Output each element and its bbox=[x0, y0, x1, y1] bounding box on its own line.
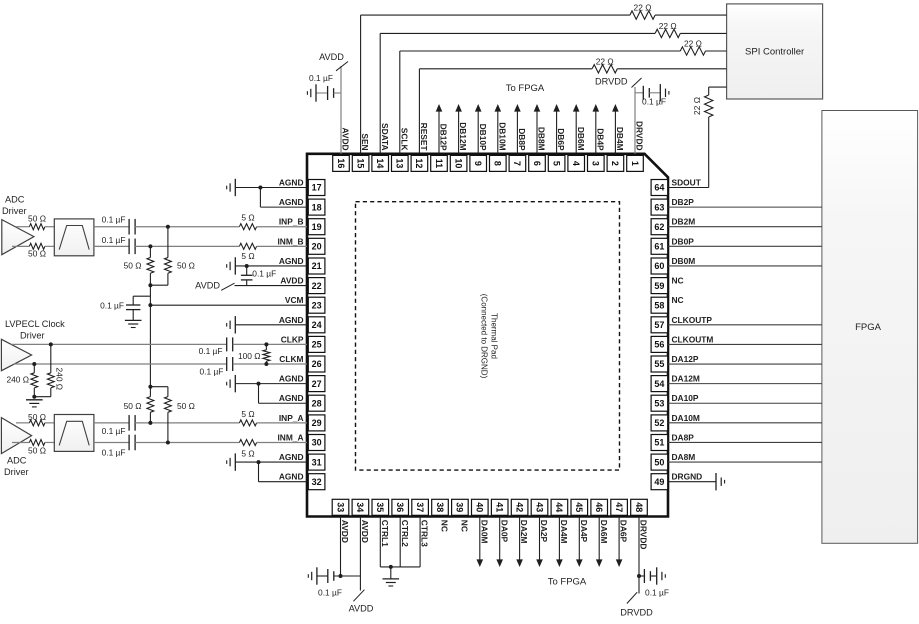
svg-text:AGND: AGND bbox=[279, 393, 304, 403]
pin 44 DA4M (bottom) bbox=[551, 499, 569, 543]
resistor 50 Ohm (INP_B series at driver) bbox=[16, 214, 46, 230]
pin 33 AVDD (bottom) bbox=[332, 499, 350, 543]
svg-text:DA10M: DA10M bbox=[672, 413, 700, 423]
wire net DRVDD pin1 vertical bbox=[634, 87, 636, 154]
wire net AGND pins 27-28 bbox=[235, 384, 307, 404]
svg-text:DA2M: DA2M bbox=[519, 520, 529, 544]
svg-text:23: 23 bbox=[312, 300, 322, 310]
capacitor 0.1uF (AVDD pin16 decoupling) bbox=[309, 73, 341, 100]
wire net DB6M to FPGA (arrow up) bbox=[575, 111, 577, 154]
pin 64 SDOUT (right) bbox=[651, 178, 702, 196]
AVDD net label (top) bbox=[319, 52, 348, 71]
svg-text:Driver: Driver bbox=[4, 467, 29, 477]
svg-text:22 Ω: 22 Ω bbox=[684, 39, 702, 49]
svg-text:22 Ω: 22 Ω bbox=[659, 21, 677, 31]
svg-text:1: 1 bbox=[630, 161, 640, 166]
wire net DA8M (pin 50 to FPGA) bbox=[668, 461, 822, 463]
svg-text:50 Ω: 50 Ω bbox=[177, 260, 195, 270]
svg-text:33: 33 bbox=[335, 502, 345, 512]
pin 37 CTRL3 (bottom) bbox=[412, 499, 430, 547]
wire net DB12M to FPGA (arrow up) bbox=[458, 111, 460, 154]
pin 22 AVDD (left) bbox=[280, 276, 325, 294]
wire net DB0P (pin 61 to FPGA) bbox=[668, 245, 822, 247]
svg-text:DRVDD: DRVDD bbox=[595, 77, 628, 87]
svg-text:DB0P: DB0P bbox=[672, 236, 695, 246]
svg-text:11: 11 bbox=[434, 159, 444, 169]
svg-text:18: 18 bbox=[312, 202, 322, 212]
pin 1 DRVDD (top) bbox=[627, 121, 645, 171]
svg-text:50 Ω: 50 Ω bbox=[28, 214, 46, 224]
pin 48 DRVDD (bottom) bbox=[631, 499, 649, 549]
svg-text:5 Ω: 5 Ω bbox=[241, 448, 254, 458]
pin 62 DB2M (right) bbox=[651, 217, 695, 235]
junction (240 Ohm ground node) bbox=[32, 395, 36, 399]
ADC chip U1 body (64-pin QFP) bbox=[307, 154, 668, 517]
svg-text:240 Ω: 240 Ω bbox=[55, 368, 65, 391]
svg-text:5: 5 bbox=[551, 161, 561, 166]
pin 31 AGND (left) bbox=[279, 452, 325, 470]
svg-text:22 Ω: 22 Ω bbox=[692, 97, 702, 115]
wire net DB8M to FPGA (arrow up) bbox=[536, 111, 538, 154]
capacitor 0.1uF (DRVDD bottom decoupling) bbox=[639, 569, 669, 597]
svg-text:57: 57 bbox=[654, 320, 664, 330]
svg-text:41: 41 bbox=[495, 502, 505, 512]
wire net DB0M (pin 60 to FPGA) bbox=[668, 265, 822, 267]
junction (AGND21 cap tee) bbox=[245, 264, 249, 268]
svg-text:DA0P: DA0P bbox=[499, 520, 509, 543]
svg-text:SEN: SEN bbox=[360, 133, 370, 150]
wire net CLKOUTP (pin 57 to FPGA) bbox=[668, 324, 822, 326]
pin 13 SCLK (top) bbox=[392, 128, 410, 172]
junction (INP_B tap) bbox=[166, 225, 170, 229]
wire net DA10M (pin 52 to FPGA) bbox=[668, 422, 822, 424]
svg-text:NC: NC bbox=[672, 276, 684, 286]
ground (DRVDD pin1 cap) bbox=[659, 84, 661, 101]
capacitor 0.1uF (DRVDD pin1 decoupling) bbox=[635, 86, 666, 107]
svg-text:7: 7 bbox=[512, 161, 522, 166]
svg-text:CLKOUTP: CLKOUTP bbox=[672, 315, 713, 325]
wire net DB8P to FPGA (arrow up) bbox=[516, 111, 518, 154]
capacitor 0.1uF (INM_B series) bbox=[94, 235, 135, 254]
svg-text:10: 10 bbox=[453, 158, 463, 168]
svg-text:9: 9 bbox=[473, 161, 483, 166]
svg-text:50 Ω: 50 Ω bbox=[28, 249, 46, 259]
AVDD net label (pin 22) bbox=[195, 280, 234, 290]
ground (DRGND) bbox=[715, 473, 717, 490]
resistor 5 Ohm (INP_A series) bbox=[239, 409, 307, 426]
svg-text:SPI Controller: SPI Controller bbox=[745, 47, 804, 58]
svg-text:44: 44 bbox=[554, 502, 564, 512]
svg-text:CLKM: CLKM bbox=[279, 354, 303, 364]
pin 23 VCM (left) bbox=[285, 295, 325, 313]
svg-text:5 Ω: 5 Ω bbox=[241, 213, 254, 223]
svg-text:AVDD: AVDD bbox=[280, 276, 303, 286]
svg-text:DA10P: DA10P bbox=[672, 393, 699, 403]
resistor 50 Ohm (INM_B to VCM) bbox=[124, 246, 154, 285]
pin 17 AGND (left) bbox=[279, 178, 325, 196]
pin 58 NC (right) bbox=[651, 295, 684, 313]
svg-text:4: 4 bbox=[571, 161, 581, 166]
svg-text:5 Ω: 5 Ω bbox=[241, 409, 254, 419]
pin 20 INM_B (left) bbox=[277, 236, 324, 254]
svg-text:DA2P: DA2P bbox=[539, 520, 549, 543]
junction (CLKP 240 tap) bbox=[49, 342, 53, 346]
pin 63 DB2P (right) bbox=[651, 197, 694, 215]
ground (AGND 21) bbox=[234, 257, 236, 274]
pin 51 DA8P (right) bbox=[651, 432, 694, 450]
pin 3 DB4P (top) bbox=[588, 128, 606, 171]
capacitor 0.1uF (INM_A series) bbox=[94, 435, 135, 458]
svg-text:0.1 µF: 0.1 µF bbox=[102, 235, 126, 245]
svg-text:DRVDD: DRVDD bbox=[639, 520, 649, 550]
svg-text:39: 39 bbox=[455, 502, 465, 512]
junction (channel A common node) bbox=[148, 385, 152, 389]
pin 40 DA0M (bottom) bbox=[472, 499, 490, 543]
svg-text:AGND: AGND bbox=[279, 178, 304, 188]
wire node VCM bias (to channel A) bbox=[149, 285, 151, 387]
wire (240 Ohm common) bbox=[34, 396, 51, 398]
ADC Driver (channel B) amplifier bbox=[2, 194, 34, 254]
svg-text:12: 12 bbox=[414, 158, 424, 168]
pin 2 DB4M (top) bbox=[607, 127, 625, 172]
svg-text:50 Ω: 50 Ω bbox=[28, 446, 46, 456]
ground (CTRL pins) bbox=[383, 578, 400, 580]
wire net DB12P to FPGA (arrow up) bbox=[438, 111, 440, 154]
svg-text:LVPECL Clock: LVPECL Clock bbox=[5, 319, 65, 329]
svg-text:AGND: AGND bbox=[279, 374, 304, 384]
svg-text:DB12M: DB12M bbox=[458, 122, 468, 150]
svg-text:DRVDD: DRVDD bbox=[635, 121, 645, 151]
wire net SDATA (pin 14 to SPI controller) bbox=[380, 33, 726, 153]
capacitor 0.1uF (VCM to ground) bbox=[100, 296, 150, 320]
svg-text:64: 64 bbox=[654, 183, 664, 193]
wire net AGND pin 24 bbox=[235, 324, 307, 326]
ADC Driver (channel A) amplifier bbox=[1, 418, 31, 477]
resistor 50 Ohm (INM_A to VCM) bbox=[165, 387, 195, 443]
svg-text:50 Ω: 50 Ω bbox=[177, 401, 195, 411]
svg-text:38: 38 bbox=[435, 502, 445, 512]
wire net DB2M (pin 62 to FPGA) bbox=[668, 226, 822, 228]
svg-text:ADC: ADC bbox=[7, 455, 27, 465]
junction (INM_B tap) bbox=[148, 244, 152, 248]
svg-text:DRVDD: DRVDD bbox=[620, 608, 653, 618]
wire net DRGND (pin 49) bbox=[668, 481, 716, 483]
resistor 50 Ohm (INM_A series at driver) bbox=[12, 440, 46, 456]
wire net DB10P to FPGA (arrow up) bbox=[477, 111, 479, 154]
pin 59 NC (right) bbox=[651, 276, 684, 294]
wire net AVDD pin 22 bbox=[235, 285, 308, 287]
svg-text:AVDD: AVDD bbox=[319, 52, 344, 62]
pin 61 DB0P (right) bbox=[651, 236, 694, 254]
capacitor 0.1uF (AVDD pin22 decoupling) bbox=[241, 266, 276, 286]
svg-text:AVDD: AVDD bbox=[360, 520, 370, 543]
wire net DA12M (pin 54 to FPGA) bbox=[668, 383, 822, 385]
svg-text:DA12P: DA12P bbox=[672, 354, 699, 364]
pin 57 CLKOUTP (right) bbox=[651, 315, 712, 333]
wire INM_B (cap to 5 Ohm) bbox=[135, 245, 239, 247]
wire net AGND pin 21 bbox=[235, 265, 307, 267]
svg-text:100 Ω: 100 Ω bbox=[238, 351, 261, 361]
junction (AGND17 tee) bbox=[258, 186, 262, 190]
svg-text:56: 56 bbox=[654, 340, 664, 350]
svg-text:AGND: AGND bbox=[279, 197, 304, 207]
svg-text:DB8P: DB8P bbox=[517, 128, 527, 151]
svg-text:FPGA: FPGA bbox=[855, 322, 882, 333]
svg-text:SDATA: SDATA bbox=[380, 123, 390, 151]
pin 56 CLKOUTM (right) bbox=[651, 334, 713, 352]
pin 34 AVDD (bottom) bbox=[352, 499, 370, 543]
svg-text:0.1 µF: 0.1 µF bbox=[199, 366, 223, 376]
svg-text:INM_B: INM_B bbox=[277, 236, 303, 246]
pin 30 INM_A (left) bbox=[277, 432, 324, 450]
pin 54 DA12M (right) bbox=[651, 374, 700, 392]
FPGA block bbox=[822, 111, 918, 544]
svg-text:DA0M: DA0M bbox=[479, 520, 489, 544]
thermal pad (connected to DRGND) bbox=[356, 202, 620, 470]
junction (CLKP 100 Ohm) bbox=[264, 342, 268, 346]
svg-text:AGND: AGND bbox=[279, 315, 304, 325]
svg-text:50 Ω: 50 Ω bbox=[124, 401, 142, 411]
svg-text:19: 19 bbox=[312, 222, 322, 232]
pin 50 DA8M (right) bbox=[651, 452, 695, 470]
svg-text:Driver: Driver bbox=[20, 330, 45, 340]
wire net SDOUT (pin 64 to SPI controller) bbox=[668, 87, 727, 187]
svg-text:20: 20 bbox=[312, 242, 322, 252]
svg-text:15: 15 bbox=[355, 158, 365, 168]
AVDD net label (bottom) bbox=[349, 590, 374, 614]
pin 60 DB0M (right) bbox=[651, 256, 695, 274]
wire net DA0P to FPGA (arrow down) bbox=[499, 517, 501, 561]
pin 55 DA12P (right) bbox=[651, 354, 699, 372]
junction (AGND27 tee) bbox=[257, 382, 261, 386]
wire INP_B (cap to 5 Ohm) bbox=[135, 226, 239, 228]
pin 38 NC (bottom) bbox=[432, 499, 450, 532]
pin 43 DA2P (bottom) bbox=[531, 499, 549, 542]
resistor 5 Ohm (INM_A series) bbox=[239, 440, 307, 459]
capacitor 0.1uF (INP_A series) bbox=[94, 415, 135, 436]
pin 42 DA2M (bottom) bbox=[511, 499, 529, 543]
resistor 22 Ohm (SCLK series) bbox=[680, 39, 705, 56]
ground (AGND 31/32) bbox=[234, 453, 236, 470]
pin 10 DB12M (top) bbox=[450, 122, 468, 171]
resistor 22 Ohm (SDATA series) bbox=[655, 21, 680, 38]
svg-text:14: 14 bbox=[375, 158, 385, 168]
capacitor 0.1uF (AVDD bottom decoupling) bbox=[317, 569, 342, 597]
svg-text:16: 16 bbox=[336, 158, 346, 168]
svg-text:DA12M: DA12M bbox=[672, 374, 700, 384]
svg-text:DB10P: DB10P bbox=[478, 124, 488, 151]
svg-text:8: 8 bbox=[493, 161, 503, 166]
svg-text:25: 25 bbox=[312, 340, 322, 350]
svg-text:DB4M: DB4M bbox=[615, 127, 625, 151]
svg-text:50 Ω: 50 Ω bbox=[28, 412, 46, 422]
junction (CLKM 240 tap) bbox=[32, 362, 36, 366]
capacitor 0.1uF (CLKM series) bbox=[199, 357, 307, 376]
svg-text:42: 42 bbox=[514, 502, 524, 512]
wire INP_A (cap to 5 Ohm) bbox=[135, 422, 239, 424]
svg-text:6: 6 bbox=[532, 161, 542, 166]
resistor 240 Ohm (CLKP termination) bbox=[47, 344, 64, 396]
svg-text:AGND: AGND bbox=[279, 452, 304, 462]
pin 32 AGND (left) bbox=[279, 472, 325, 490]
svg-text:To FPGA: To FPGA bbox=[506, 83, 545, 94]
svg-text:40: 40 bbox=[475, 502, 485, 512]
wire net AVDD pin16 vertical bbox=[340, 66, 342, 154]
svg-text:46: 46 bbox=[594, 502, 604, 512]
pin 21 AGND (left) bbox=[279, 256, 325, 274]
ground (AVDD pin16 cap) bbox=[315, 84, 317, 101]
wire net RESET (pin 12 to SPI controller) bbox=[419, 69, 726, 154]
svg-text:47: 47 bbox=[614, 502, 624, 512]
svg-text:0.1 µF: 0.1 µF bbox=[642, 97, 666, 107]
wire net DA12P (pin 55 to FPGA) bbox=[668, 363, 822, 365]
svg-text:NC: NC bbox=[672, 295, 684, 305]
wire net AGND pins 31-32 bbox=[235, 462, 307, 482]
svg-text:AVDD: AVDD bbox=[195, 280, 220, 290]
wire net DB10M to FPGA (arrow up) bbox=[497, 111, 499, 154]
pin 28 AGND (left) bbox=[279, 393, 325, 411]
svg-text:48: 48 bbox=[634, 502, 644, 512]
svg-text:DA6P: DA6P bbox=[619, 520, 629, 543]
ground (AGND 27/28) bbox=[234, 375, 236, 392]
svg-text:AGND: AGND bbox=[279, 256, 304, 266]
svg-text:31: 31 bbox=[312, 457, 322, 467]
pin 7 DB8P (top) bbox=[509, 128, 527, 171]
svg-text:63: 63 bbox=[654, 202, 664, 212]
svg-text:DA4P: DA4P bbox=[579, 520, 589, 543]
pin 35 CTRL1 (bottom) bbox=[372, 499, 390, 547]
svg-text:32: 32 bbox=[312, 477, 322, 487]
wire net DB2P (pin 63 to FPGA) bbox=[668, 206, 822, 208]
svg-text:51: 51 bbox=[654, 438, 664, 448]
svg-text:50: 50 bbox=[654, 457, 664, 467]
svg-text:To FPGA: To FPGA bbox=[548, 577, 587, 588]
svg-text:Driver: Driver bbox=[2, 206, 27, 216]
svg-text:DA4M: DA4M bbox=[559, 520, 569, 544]
junction (INP_A tap) bbox=[148, 421, 152, 425]
wire net DA4P to FPGA (arrow down) bbox=[578, 517, 580, 561]
svg-text:DA6M: DA6M bbox=[599, 520, 609, 544]
svg-text:RESET: RESET bbox=[419, 123, 429, 152]
svg-text:DB10M: DB10M bbox=[497, 122, 507, 150]
svg-text:43: 43 bbox=[534, 502, 544, 512]
resistor 22 Ohm (RESET series) bbox=[592, 56, 617, 73]
svg-text:61: 61 bbox=[654, 242, 664, 252]
bandpass filter (channel A) bbox=[45, 415, 94, 452]
wire CLKM (clock driver to cap) bbox=[14, 363, 227, 365]
svg-text:2: 2 bbox=[610, 161, 620, 166]
svg-text:INP_A: INP_A bbox=[279, 413, 304, 423]
pin 47 DA6P (bottom) bbox=[611, 499, 629, 542]
bandpass filter (channel B) bbox=[45, 219, 94, 256]
wire (channel B termination common node) bbox=[150, 284, 168, 286]
ground (VCM cap) bbox=[125, 319, 142, 321]
svg-text:240 Ω: 240 Ω bbox=[6, 374, 29, 384]
svg-text:DA8P: DA8P bbox=[672, 432, 695, 442]
resistor 240 Ohm (CLKM termination) bbox=[6, 364, 37, 397]
DRVDD net label (bottom) bbox=[620, 592, 653, 617]
pin 5 DB6P (top) bbox=[548, 128, 566, 171]
svg-text:0.1 µF: 0.1 µF bbox=[252, 268, 276, 278]
svg-text:54: 54 bbox=[654, 379, 664, 389]
wire net DB4P to FPGA (arrow up) bbox=[595, 111, 597, 154]
svg-text:CTRL2: CTRL2 bbox=[400, 520, 410, 547]
junction (AGND31 tee) bbox=[257, 460, 261, 464]
svg-text:26: 26 bbox=[312, 359, 322, 369]
svg-text:AVDD: AVDD bbox=[341, 127, 351, 150]
pin 41 DA0P (bottom) bbox=[491, 499, 509, 542]
wire net DB6P to FPGA (arrow up) bbox=[556, 111, 558, 154]
junction (DRVDD48 cap tee) bbox=[637, 574, 641, 578]
resistor 50 Ohm (INM_B series at driver) bbox=[12, 243, 46, 258]
svg-text:22 Ω: 22 Ω bbox=[596, 56, 614, 66]
ground (AGND 17/18) bbox=[234, 179, 236, 196]
pin 49 DRGND (right) bbox=[651, 472, 702, 490]
svg-text:27: 27 bbox=[312, 379, 322, 389]
svg-text:53: 53 bbox=[654, 398, 664, 408]
svg-text:SCLK: SCLK bbox=[399, 128, 409, 151]
junction (CTRL ground node) bbox=[389, 565, 393, 569]
svg-text:0.1 µF: 0.1 µF bbox=[645, 587, 669, 597]
svg-text:0.1 µF: 0.1 µF bbox=[102, 426, 126, 436]
svg-text:VCM: VCM bbox=[285, 295, 304, 305]
pin 19 INP_B (left) bbox=[279, 217, 325, 235]
wire CLKP (clock driver to cap) bbox=[12, 343, 227, 345]
svg-text:DB8M: DB8M bbox=[537, 127, 547, 151]
svg-text:59: 59 bbox=[654, 281, 664, 291]
svg-text:0.1 µF: 0.1 µF bbox=[102, 447, 126, 457]
svg-text:29: 29 bbox=[312, 418, 322, 428]
svg-text:34: 34 bbox=[355, 502, 365, 512]
ground (AGND 24) bbox=[234, 316, 236, 333]
svg-text:CTRL1: CTRL1 bbox=[380, 520, 390, 547]
svg-text:22 Ω: 22 Ω bbox=[634, 3, 652, 13]
wire net SCLK (pin 13 to SPI controller) bbox=[400, 51, 727, 154]
wire INM_A (cap to 5 Ohm) bbox=[135, 441, 239, 443]
svg-text:ADC: ADC bbox=[5, 194, 25, 204]
svg-text:INP_B: INP_B bbox=[279, 217, 304, 227]
svg-text:35: 35 bbox=[375, 502, 385, 512]
pin 12 RESET (top) bbox=[411, 123, 429, 172]
svg-text:45: 45 bbox=[574, 502, 584, 512]
wire net SEN (pin 15 to SPI controller) bbox=[361, 15, 727, 154]
pin 36 CTRL2 (bottom) bbox=[392, 499, 410, 547]
svg-text:AVDD: AVDD bbox=[340, 520, 350, 543]
resistor 22 Ohm (SEN series) bbox=[630, 3, 655, 20]
svg-text:58: 58 bbox=[654, 300, 664, 310]
svg-text:24: 24 bbox=[312, 320, 322, 330]
junction (VCM bias node) bbox=[148, 303, 152, 307]
ground (AVDD bottom cap) bbox=[316, 567, 318, 584]
svg-text:DB2P: DB2P bbox=[672, 197, 695, 207]
capacitor 0.1uF (CLKP series) bbox=[199, 337, 307, 356]
svg-text:DB6P: DB6P bbox=[556, 128, 566, 151]
pin 24 AGND (left) bbox=[279, 315, 325, 333]
pin 27 AGND (left) bbox=[279, 374, 325, 392]
svg-text:CLKOUTM: CLKOUTM bbox=[672, 334, 714, 344]
svg-text:DB6M: DB6M bbox=[576, 127, 586, 151]
svg-text:62: 62 bbox=[654, 222, 664, 232]
svg-text:0.1 µF: 0.1 µF bbox=[309, 73, 333, 83]
resistor 22 Ohm (SDOUT series) bbox=[692, 95, 713, 117]
svg-text:DB12P: DB12P bbox=[439, 124, 449, 151]
svg-text:NC: NC bbox=[460, 520, 470, 532]
capacitor 0.1uF (INP_B series) bbox=[94, 215, 135, 235]
junction (INM_A tap) bbox=[166, 440, 170, 444]
svg-text:37: 37 bbox=[415, 502, 425, 512]
pin 52 DA10M (right) bbox=[651, 413, 700, 431]
wire net DA2P to FPGA (arrow down) bbox=[539, 517, 541, 561]
